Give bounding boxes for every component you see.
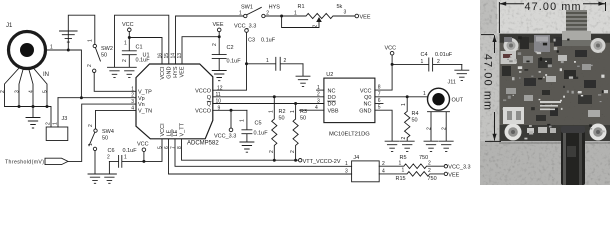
photo background (bench surface): [480, 0, 610, 185]
svg-text:1: 1: [317, 85, 320, 91]
svg-text:1: 1: [294, 11, 297, 17]
svg-text:VCC_3.3: VCC_3.3: [448, 165, 470, 171]
svg-text:GND: GND: [359, 108, 371, 114]
ground (C2): [212, 71, 226, 81]
svg-text:2: 2: [46, 122, 52, 125]
U1 left pin numbers: [131, 86, 134, 111]
svg-text:2: 2: [290, 150, 296, 153]
power VCC (bottom, U1 VCCI): [137, 142, 149, 163]
wire VCC to U1 pin16: [129, 38, 162, 65]
svg-text:C6: C6: [108, 148, 115, 154]
svg-text:C1: C1: [136, 45, 143, 51]
node VTT_VCCO-2V: [299, 159, 341, 165]
svg-text:50: 50: [102, 136, 108, 142]
ground (input top, on wire to SW2): [60, 15, 95, 50]
svg-text:50: 50: [279, 116, 285, 122]
svg-text:VEE: VEE: [213, 22, 224, 28]
svg-text:2: 2: [269, 150, 275, 153]
svg-text:1: 1: [240, 119, 246, 122]
wire VCC to U2 pin8: [375, 64, 392, 90]
wire J11 ground pins: [427, 112, 450, 141]
svg-text:2: 2: [401, 137, 407, 140]
svg-text:1: 1: [399, 160, 402, 166]
svg-text:Threshold(mV): Threshold(mV): [5, 160, 44, 166]
svg-text:1: 1: [239, 11, 242, 17]
svg-text:C2: C2: [227, 45, 234, 51]
U2 left pin names: [328, 88, 339, 114]
svg-text:2: 2: [107, 155, 110, 161]
wire U1 pin8 V_TT to VTT node: [182, 139, 299, 162]
svg-text:50: 50: [300, 116, 306, 122]
svg-text:OUT: OUT: [452, 98, 464, 104]
wire Q net U1 pin11 to U2 pin2: [213, 95, 324, 98]
wire U1 pin6 LE to J4 pin1... (lower): [169, 139, 352, 174]
svg-text:50: 50: [101, 53, 107, 59]
U1 top pin names (rotated): [160, 66, 186, 80]
ground (J1 shield bus): [26, 107, 40, 129]
svg-text:Q: Q: [207, 95, 212, 101]
resistor R2 50: [269, 97, 286, 160]
svg-text:750: 750: [419, 155, 428, 161]
svg-text:VCC: VCC: [122, 22, 134, 28]
U1 Qbar overline: [207, 100, 211, 102]
svg-text:ADCMP582: ADCMP582: [187, 141, 219, 147]
svg-text:J4: J4: [353, 155, 359, 161]
svg-text:VCCI: VCCI: [160, 123, 166, 137]
resistor R3 50: [290, 104, 307, 161]
wire U1 pin7 LEbar to J4: [175, 139, 352, 166]
svg-text:VTT_VCCO-2V: VTT_VCCO-2V: [303, 159, 341, 165]
svg-text:2: 2: [428, 168, 431, 174]
svg-text:MC10ELT21DG: MC10ELT21DG: [329, 132, 370, 138]
svg-text:J1: J1: [6, 23, 13, 29]
svg-text:NC: NC: [364, 102, 372, 108]
svg-text:0.1uF: 0.1uF: [227, 59, 242, 65]
svg-text:VCCO: VCCO: [195, 88, 212, 94]
svg-text:6: 6: [164, 146, 170, 149]
ground (C6): [102, 161, 116, 183]
svg-text:3: 3: [131, 99, 134, 105]
svg-text:0.1uF: 0.1uF: [261, 38, 276, 44]
svg-text:3: 3: [344, 10, 347, 16]
U1 right pin numbers: [216, 85, 223, 111]
switch SW4: [88, 124, 114, 151]
wire VCC to U1 pin5: [144, 139, 162, 161]
wire Vp to J3: [57, 98, 59, 127]
svg-text:VBB: VBB: [328, 108, 339, 114]
svg-text:1: 1: [421, 59, 424, 65]
svg-text:V_TT: V_TT: [180, 122, 186, 136]
svg-text:LE: LE: [167, 129, 173, 136]
switch SW2: [87, 39, 113, 73]
svg-text:Vp: Vp: [138, 96, 145, 102]
U1 bottom pin names (rotated): [160, 122, 186, 136]
svg-text:0.1uF: 0.1uF: [254, 131, 269, 137]
svg-text:IN: IN: [43, 72, 49, 78]
svg-text:DO: DO: [328, 102, 337, 108]
svg-text:3: 3: [317, 98, 320, 104]
svg-text:3: 3: [15, 90, 21, 93]
standoff screw top-right: [591, 38, 606, 53]
wire J1 pin fan to ground bus: [0, 67, 51, 127]
svg-text:7: 7: [171, 146, 177, 149]
svg-text:C3: C3: [248, 38, 255, 44]
ground (C1): [122, 67, 136, 77]
svg-text:4: 4: [131, 106, 134, 112]
power VCC_3.3 (under pin9): [214, 128, 236, 139]
wire U2 pin7 Q0 to J11: [375, 91, 428, 99]
svg-text:5: 5: [378, 105, 381, 111]
svg-text:5: 5: [158, 146, 164, 149]
svg-text:2: 2: [427, 127, 433, 130]
svg-text:1: 1: [124, 41, 127, 47]
wire VCC_3.3 node to U1 pin12: [213, 64, 247, 90]
wire U2 pin4 VBB stub: [300, 109, 324, 111]
node Threshold(mV) flag: [5, 158, 68, 165]
svg-text:U2: U2: [326, 72, 333, 78]
svg-text:VCC: VCC: [385, 46, 397, 52]
output barrel connector (dark cylinder): [561, 126, 585, 185]
svg-text:0.1uF: 0.1uF: [123, 148, 138, 154]
IC U2 MC10ELT21DG: [324, 72, 375, 138]
ground (SW4): [88, 174, 102, 183]
svg-text:VCCI: VCCI: [160, 66, 166, 80]
svg-text:2: 2: [312, 25, 318, 28]
svg-text:2: 2: [266, 11, 269, 17]
ground (C3): [296, 64, 310, 87]
svg-text:R4: R4: [412, 111, 419, 117]
svg-text:47.00 mm: 47.00 mm: [525, 1, 581, 13]
svg-text:8: 8: [378, 85, 381, 91]
power VEE (top right): [355, 14, 371, 20]
ground (J11 right pin): [439, 141, 453, 151]
svg-text:1: 1: [266, 58, 269, 64]
svg-text:V_TN: V_TN: [138, 109, 152, 115]
svg-text:750: 750: [428, 176, 437, 182]
silkscreen text block: [540, 101, 561, 110]
svg-text:2: 2: [0, 90, 6, 93]
SMA connector (top): [558, 10, 594, 46]
svg-text:2: 2: [87, 64, 93, 67]
wire U1 pin4 V_TN to SW4: [96, 110, 136, 128]
capacitor C4 0.01uF: [392, 52, 462, 71]
resistor R15 750: [379, 168, 444, 183]
svg-text:1: 1: [269, 110, 275, 113]
node HYS junction: [280, 15, 283, 18]
U1 right pin names: [195, 88, 212, 114]
svg-text:5: 5: [43, 90, 49, 93]
ground (R4): [400, 141, 414, 151]
connector J1: [6, 23, 53, 78]
svg-text:1: 1: [290, 110, 296, 113]
svg-text:2: 2: [122, 59, 128, 62]
white 2-pin connector: [503, 107, 524, 124]
ground (C4): [455, 64, 469, 80]
svg-text:2: 2: [212, 43, 218, 46]
svg-text:7: 7: [378, 91, 381, 97]
svg-text:1: 1: [124, 155, 127, 161]
svg-text:1: 1: [345, 161, 348, 167]
wire U1 pin2 Vp: [58, 96, 136, 99]
svg-text:2: 2: [428, 161, 431, 167]
capacitor C3: [247, 38, 304, 71]
U2 pin 1 stub NC: [315, 85, 324, 111]
wire U2 pin5 GND to ground: [375, 105, 392, 141]
svg-text:C4: C4: [421, 52, 428, 58]
connector J11 OUT: [428, 80, 464, 111]
ground (U1 GND pin15): [108, 67, 122, 77]
U2 DObar overline: [328, 100, 336, 102]
capacitor C6: [107, 148, 144, 167]
svg-text:HYS: HYS: [173, 66, 179, 78]
svg-text:2: 2: [437, 59, 440, 65]
svg-text:47.00 mm: 47.00 mm: [482, 54, 494, 110]
svg-text:1: 1: [402, 168, 405, 174]
svg-text:2: 2: [131, 93, 134, 99]
wire U1 pin9 VCCO node: [213, 109, 247, 128]
svg-text:LE: LE: [173, 129, 179, 136]
ground (J11 left pin): [424, 141, 438, 151]
power VEE (above C2): [213, 22, 224, 55]
wire J1 pin1 to Vp riser: [46, 49, 82, 98]
U1 bottom pin numbers (rotated): [158, 146, 184, 149]
svg-text:R15: R15: [396, 176, 406, 182]
svg-text:2: 2: [284, 58, 287, 64]
power VEE (right): [444, 172, 459, 178]
svg-text:Vn: Vn: [138, 102, 145, 108]
capacitor C1: [122, 41, 150, 67]
standoff screw bottom-left: [505, 124, 522, 141]
svg-text:VEE: VEE: [448, 172, 459, 178]
svg-text:1: 1: [53, 122, 59, 125]
svg-text:DO: DO: [328, 95, 337, 101]
svg-text:SW2: SW2: [101, 46, 113, 52]
resistor R5 750: [379, 155, 444, 169]
wire U1 pin14 HYS to SW1: [176, 16, 244, 64]
assorted SMD components: [501, 36, 609, 139]
wire Threshold to U1 pin3 Vn: [68, 104, 136, 161]
U2 right pin names: [359, 88, 371, 114]
svg-text:1: 1: [88, 39, 94, 42]
connector J3: [46, 116, 68, 141]
svg-text:J11: J11: [448, 80, 456, 86]
svg-text:VEE: VEE: [180, 66, 186, 77]
svg-text:6: 6: [378, 98, 381, 104]
svg-text:VEE: VEE: [360, 15, 371, 21]
svg-text:1: 1: [423, 91, 426, 97]
svg-text:VCC: VCC: [137, 142, 149, 148]
svg-text:Q: Q: [207, 102, 212, 108]
svg-text:V_TP: V_TP: [138, 89, 152, 95]
U1 left pin names: [138, 89, 152, 114]
svg-text:50: 50: [412, 118, 418, 124]
svg-text:4: 4: [29, 90, 35, 93]
svg-text:16: 16: [158, 53, 164, 59]
power VCC_3.3 (right): [444, 165, 470, 171]
svg-text:5k: 5k: [337, 4, 343, 10]
wire U1 pin15 GND to ground: [115, 15, 169, 67]
svg-text:VCC: VCC: [360, 88, 372, 94]
svg-text:C5: C5: [255, 121, 262, 127]
wire U1 pin13 VEE: [182, 37, 219, 64]
svg-text:NC: NC: [328, 88, 336, 94]
svg-text:0.01uF: 0.01uF: [435, 52, 453, 58]
svg-text:1: 1: [88, 143, 94, 146]
svg-text:0.1uF: 0.1uF: [136, 58, 151, 64]
svg-text:SW1: SW1: [241, 5, 253, 11]
wire SW2 to U1 pin1 V_TP: [94, 73, 135, 92]
power VCC (top): [122, 22, 134, 50]
dimension annotation left 47.00 mm (rotated): [481, 35, 501, 142]
svg-text:SW4: SW4: [102, 129, 114, 135]
connector J4: [345, 155, 385, 182]
wire Qbar net U1 pin10 to U2 pin3: [213, 102, 324, 105]
U1 top pin numbers (rotated): [158, 53, 184, 59]
svg-text:Q0: Q0: [364, 95, 371, 101]
ground (C5): [240, 142, 254, 152]
svg-text:J3: J3: [62, 116, 68, 122]
PCB board: [500, 34, 610, 142]
svg-text:VCC_3.3: VCC_3.3: [234, 24, 256, 30]
wire SW4 to ground: [94, 151, 96, 174]
svg-text:3: 3: [345, 169, 348, 175]
dimension annotation top 47.00 mm: [499, 2, 605, 33]
capacitor C5: [240, 110, 269, 141]
svg-text:HYS: HYS: [269, 5, 281, 11]
resistor R1 potentiometer 5k: [282, 4, 355, 28]
trimpot: [534, 35, 550, 52]
svg-text:VCC_3.3: VCC_3.3: [214, 134, 236, 140]
resistor R4 50: [401, 97, 419, 141]
ground (U2 GND): [385, 141, 399, 151]
svg-text:2: 2: [442, 127, 448, 130]
switch SW1: [239, 5, 282, 18]
svg-text:1: 1: [401, 103, 407, 106]
svg-text:8: 8: [177, 146, 183, 149]
U2 pin6 stub NC: [375, 98, 383, 104]
standoff screw top-left: [504, 38, 519, 53]
svg-text:R1: R1: [298, 4, 305, 10]
svg-text:2: 2: [88, 124, 94, 127]
power VCC_3.3 (top, to C3 node): [234, 24, 256, 66]
svg-text:R2: R2: [279, 109, 286, 115]
capacitor C2: [212, 43, 241, 70]
power VCC (above U2): [385, 46, 397, 66]
svg-text:1: 1: [131, 86, 134, 92]
svg-text:VCCO: VCCO: [195, 108, 212, 114]
op-amp/comparator U1 ADCMP582 body: [136, 53, 219, 147]
standoff screw bottom-right: [590, 124, 607, 141]
svg-text:2: 2: [317, 92, 320, 98]
svg-text:GND: GND: [167, 66, 173, 78]
